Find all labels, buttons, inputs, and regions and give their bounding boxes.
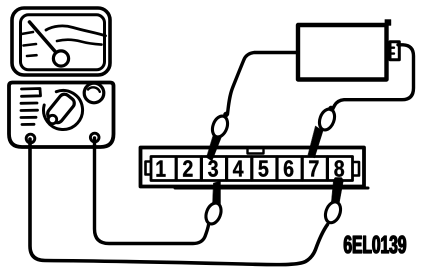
wire from left terminal to probe below pin 8 <box>30 139 328 265</box>
dial knob tip circle <box>48 115 56 123</box>
probe P3 handle <box>203 201 224 226</box>
pin 4 label <box>233 161 243 177</box>
range tick lines <box>21 89 41 125</box>
probe P1 handle <box>210 114 231 139</box>
probe P1 above pin 3 : tip <box>207 133 222 162</box>
figure label 6EL0139 <box>344 236 406 254</box>
probe P2 above pin 7 : tip <box>308 126 323 158</box>
wire from relay tab to probe above pin 7 <box>332 45 414 112</box>
connector C1 outer shell <box>141 148 365 187</box>
terminal right <box>90 133 99 142</box>
pin dividers <box>176 157 327 180</box>
indicator window circle <box>84 83 104 103</box>
probe P2 top blob <box>328 106 333 111</box>
probe P4 below pin 8 : tip <box>331 178 344 207</box>
connector bottom heavy edge <box>175 187 368 190</box>
pin 8 label <box>334 160 344 176</box>
pin 2 label <box>183 160 192 176</box>
multimeter lower body <box>9 83 114 148</box>
meter needle hub <box>53 51 68 66</box>
connector right keying tab <box>353 162 360 176</box>
connector left keying tab <box>146 162 151 175</box>
relay box B1 <box>298 25 387 80</box>
pin 3 label <box>208 160 218 177</box>
rotary dial knob <box>45 92 76 125</box>
wire from relay left side to probe above pin 3 <box>228 53 297 115</box>
indicator inner arc <box>88 87 100 91</box>
meter scale arc upper <box>46 26 106 36</box>
relay tab contact marks <box>391 48 394 54</box>
pin 1 label <box>157 161 166 177</box>
pin 6 label <box>284 160 293 176</box>
connector top notch <box>248 150 264 154</box>
probe P2 handle <box>317 107 338 132</box>
connector pin row <box>151 157 353 181</box>
pin 5 label <box>259 161 269 177</box>
multimeter display window <box>21 15 105 70</box>
probe P3 below pin 3 : tip <box>213 181 221 206</box>
terminal left <box>26 134 35 143</box>
multimeter M1 housing <box>12 8 110 75</box>
wire from right terminal to probe below pin 3 <box>95 138 209 244</box>
rotary dial ring <box>44 90 83 129</box>
meter scale arc lower <box>57 40 102 45</box>
meter scale tick marks <box>22 32 37 56</box>
probe P4 handle <box>323 200 344 225</box>
probe P1 top blob <box>223 112 228 117</box>
relay connector tab <box>390 42 399 60</box>
meter needle <box>30 22 57 53</box>
relay box corner bump <box>385 20 391 26</box>
pin 7 label <box>309 161 318 177</box>
